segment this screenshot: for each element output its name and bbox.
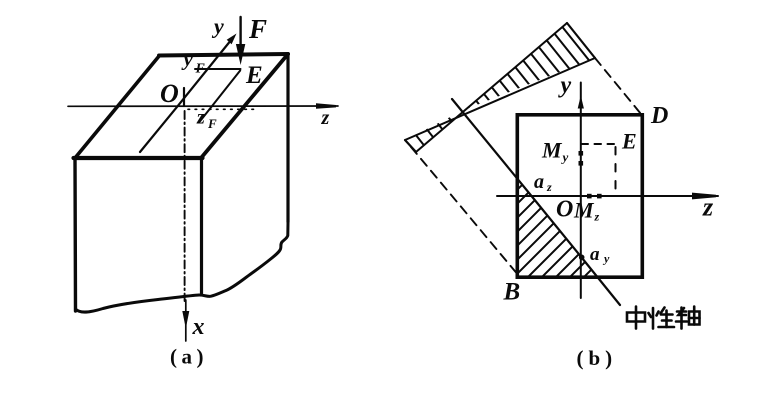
svg-text:y: y — [561, 150, 569, 165]
svg-text:O: O — [160, 79, 179, 108]
svg-text:y: y — [558, 73, 572, 99]
svg-text:B: B — [503, 279, 521, 306]
svg-text:F: F — [207, 116, 217, 131]
svg-text:z: z — [196, 107, 205, 129]
svg-text:O: O — [556, 197, 573, 223]
svg-text:z: z — [594, 210, 600, 224]
svg-text:a: a — [534, 171, 544, 193]
svg-text:a: a — [590, 244, 600, 265]
svg-text:M: M — [573, 198, 595, 223]
svg-text:E: E — [621, 129, 637, 154]
svg-text:z: z — [546, 180, 552, 194]
svg-text:y: y — [602, 252, 610, 266]
svg-text:M: M — [541, 138, 563, 163]
svg-text:D: D — [650, 103, 668, 129]
svg-text:F: F — [195, 62, 206, 77]
svg-text:z: z — [702, 193, 714, 222]
svg-text:E: E — [245, 62, 263, 89]
svg-text:(b): (b) — [577, 346, 618, 370]
svg-text:(a): (a) — [170, 345, 208, 369]
svg-text:F: F — [248, 14, 267, 44]
svg-text:z: z — [321, 107, 330, 129]
svg-text:x: x — [192, 314, 205, 340]
